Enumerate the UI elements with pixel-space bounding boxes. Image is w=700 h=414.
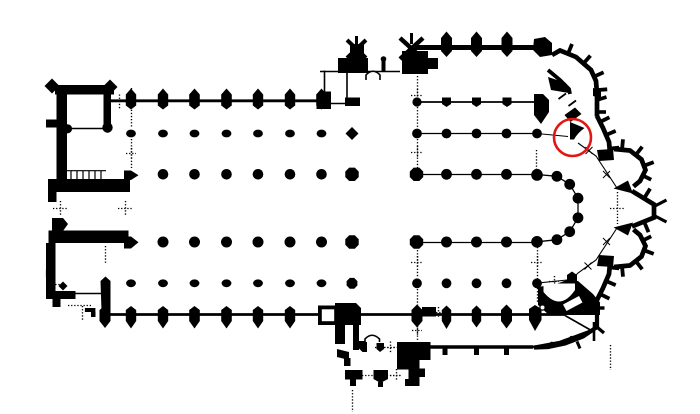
choir NE inner diagonal blob [548, 77, 569, 93]
nave north inner aisle column row2 n5 [253, 130, 263, 138]
southwest tower west stub [46, 270, 54, 278]
south chapel stair newel [540, 305, 545, 310]
choir row4 column 4 [532, 237, 543, 248]
chapel divider mass 4-5 [614, 223, 634, 236]
northwest tower west stub [46, 120, 57, 128]
choir row3 column 3 [501, 169, 512, 180]
choir row5 column 4 [502, 278, 512, 288]
nave south inner aisle column row5 n2 [158, 279, 168, 287]
dotted cross x537 s [531, 262, 543, 264]
south portal trumeau pier [377, 343, 385, 352]
southwest tower east pier [101, 277, 111, 312]
chapel ring junction knob [593, 88, 601, 98]
nave south arcade column row4 n5 [285, 237, 296, 248]
south ambulatory chapel interior [544, 284, 576, 302]
choir south aisle wall pendant pier x476 [472, 306, 481, 328]
southwest tower inner partition wall [73, 293, 104, 295]
nave south arcade column row4 n1 [158, 237, 169, 248]
south portal arch door [365, 335, 380, 342]
choir north wall buttress pier 1 [441, 32, 452, 58]
dotted cross x438 [433, 312, 443, 314]
radiating chapel 2 wall buttresses [600, 117, 609, 122]
choir NE corner pier [533, 37, 552, 57]
nave south wall [109, 313, 565, 316]
northwest tower east wall knob [102, 122, 112, 132]
north transept west wall base pier [345, 98, 360, 107]
choir row5 column 3 [472, 278, 482, 288]
dotted cross south portal [384, 347, 396, 349]
ambulatory middle line north [537, 134, 568, 137]
nave north wall [111, 99, 325, 102]
dotted axis x417 s2 [417, 289, 419, 309]
nave north inner aisle column row2 n4 [222, 130, 232, 138]
dotted axis cross west door south [118, 208, 132, 210]
north portal trumeau pier [382, 61, 386, 72]
choir row4 line [420, 242, 537, 244]
north transept facade west block [338, 58, 368, 73]
transept west aisle pier north diamond [346, 127, 359, 140]
dotted axis x352 bottom [352, 390, 354, 412]
nave south arcade column row4 n4 [253, 237, 264, 248]
choir row2 column 3 [472, 129, 482, 139]
small wall fragment 2 [91, 312, 96, 317]
choir row4 column 1 [441, 237, 452, 248]
choir south aisle wall pendant pier x506 [501, 305, 512, 329]
choir north inner row column 1 [412, 97, 421, 106]
dotted cross x131 [126, 153, 136, 155]
nave north inner aisle column row2 n2 [158, 130, 168, 138]
chapel ring straight wall south [534, 300, 597, 348]
south transept west mass [335, 303, 361, 344]
ambulatory line cross south [549, 281, 559, 283]
south facade centre pendant pier [374, 370, 389, 383]
north transept west chapel room [325, 71, 348, 104]
choir south outer wall stub 3 [504, 349, 509, 356]
nave south wall buttress pier 6 [285, 306, 295, 329]
northwest tower east wall [104, 92, 112, 125]
crossing pier SW [345, 235, 358, 248]
south transept east mass [397, 342, 431, 380]
radiating chapel 1 wall [552, 51, 597, 95]
nave south wall buttress pier 1 [126, 306, 136, 329]
small wall fragment south of SW tower [85, 308, 96, 312]
dotted cross south porch [390, 375, 402, 377]
nave row4 west respond pier [124, 237, 139, 249]
northwest tower NW corner buttress [45, 79, 60, 94]
choir row4 column 2 [471, 237, 482, 248]
radiating chapel 1 wall buttresses [568, 44, 572, 54]
ambulatory middle line south [535, 280, 572, 284]
choir south aisle diagonal [565, 316, 594, 333]
nave south wall buttress pier 3 [189, 306, 200, 329]
northwest tower north wall [55, 85, 114, 95]
nave south inner aisle column row5 n7 [317, 279, 327, 287]
choir north outer wall [414, 45, 546, 50]
nave row3 west respond pier [124, 171, 139, 181]
choir north inner row pier 2 [472, 98, 481, 108]
choir row3 line [420, 174, 537, 176]
radiating chapel 2 wall [597, 116, 610, 153]
south facade west pier pentagon [359, 341, 368, 352]
dotted axis x131 upper [131, 88, 133, 128]
choir row2 column 5 [532, 129, 542, 139]
nave north arcade column row3 n5 [285, 169, 296, 180]
ambulatory line xtick 3 [603, 238, 610, 245]
radiating chapel 3 wall [614, 149, 646, 187]
choir north inner row pier 1 [442, 98, 451, 108]
choir row2 column 2 [442, 129, 452, 139]
choir SE corner vertical [593, 322, 596, 341]
dotted cross x417 mid [411, 152, 423, 154]
nave north wall buttress pier 4 [221, 89, 232, 110]
choir south aisle wall pendant pier x446 [442, 306, 451, 330]
nave north arcade column row3 n1 [158, 169, 169, 180]
choir NE passage dash 2 [569, 101, 577, 107]
southwest tower NW corner pentagon [52, 218, 68, 231]
dotted axis x537 s [537, 247, 539, 279]
nave north wall buttress pier 3 [189, 89, 200, 110]
dotted axis x417 s3 [417, 320, 419, 340]
nave south inner aisle column row5 n6 [285, 279, 295, 287]
dotted south transept axis [375, 347, 400, 349]
chapel divider mass 3-4 [614, 181, 634, 194]
northwest tower partition column [63, 124, 72, 133]
ambulatory middle dotted axial cross [610, 208, 625, 210]
dotted cross x417 s4 [412, 330, 422, 332]
southwest tower south stubs [53, 299, 61, 307]
stair treads [70, 171, 72, 180]
choir NE passage dash 1 [559, 94, 567, 100]
nave south wall buttress pier 4 [221, 306, 232, 329]
southwest tower south wall [49, 291, 76, 299]
choir row3 column 2 [471, 169, 482, 180]
choir south outer wall diagonal [533, 330, 594, 348]
nave north inner aisle column row2 n1 [126, 130, 136, 138]
dotted axis x610 se [610, 345, 612, 370]
nave north wall buttress pier 2 [158, 89, 168, 110]
ambulatory middle line east-north [578, 143, 617, 188]
radiating chapel 5 wall buttresses [643, 236, 651, 240]
dotted axis x131 middle [131, 139, 133, 168]
nave north wall buttress pier 5 [253, 89, 263, 110]
south transept SW bar stub [350, 380, 356, 387]
nave north inner aisle column row2 n7 [317, 130, 327, 138]
northwest tower inner partition wall [67, 128, 104, 130]
south transept west diagonal wall [337, 349, 349, 360]
choir row5 column 1 [412, 278, 422, 288]
dotted axis x417 n3 [417, 139, 419, 169]
nave south wall buttress pier 5 [253, 306, 263, 329]
choir NE inner diagonal wall [548, 70, 570, 94]
dotted bottom-left vertical [82, 306, 84, 320]
choir north inner row pier 3 [503, 98, 512, 108]
north transept facade east structure [402, 51, 428, 74]
crossing pier SE [410, 235, 423, 248]
choir row5 column 2 [442, 278, 452, 288]
nave north wall buttress pier 6 [285, 89, 295, 110]
south transept SW bar [345, 370, 363, 380]
choir row3 terminal column [531, 169, 543, 181]
choir south outer wall diagonal tick 2 [571, 336, 573, 342]
dotted axis x417 s1 [417, 247, 419, 278]
south transept east mass stub right [420, 369, 426, 378]
nave south inner aisle column row5 n5 [253, 279, 263, 287]
southwest tower inner diamond pier [59, 282, 68, 291]
radiating chapel 3 wall buttresses [622, 139, 623, 150]
choir south aisle wall pendant pier x417 [412, 305, 423, 328]
choir south outer wall stub 1 [443, 349, 448, 356]
choir row2 column 1 [412, 129, 422, 139]
south transept facade west pentagon [345, 303, 356, 319]
south ambulatory chapel mass [538, 280, 600, 315]
southwest tower west wall [46, 243, 56, 299]
hemicycle column 2 [564, 179, 575, 190]
chapel ring straight wall north buttress [597, 97, 607, 100]
chapel ring south buttress [597, 306, 605, 309]
north transept west chapel SW pier [320, 92, 332, 108]
dotted south porch line [362, 375, 400, 377]
choir north inner row east pier blob [534, 94, 549, 124]
west facade north bar with stair [48, 179, 130, 192]
chapel divider mass 2-3 [597, 149, 614, 161]
northwest tower NE corner buttress [103, 80, 118, 95]
north transept facade wall west segment [320, 71, 340, 73]
dotted axis x417 n2 [417, 107, 419, 129]
choir north wall buttress pier 2 [471, 32, 482, 58]
transept west aisle pier south [347, 278, 358, 289]
ambulatory line xtick 1 [586, 147, 593, 154]
axial chapel east buttress upper [654, 200, 667, 207]
nave south wall buttress pier 2 [158, 306, 168, 329]
hemicycle column 5 [564, 226, 575, 237]
south transept west chapel room [318, 306, 338, 326]
crossing pier NE [410, 168, 423, 181]
nave south wall west pier [100, 306, 111, 329]
axial chapel wall buttresses [644, 189, 650, 199]
nave south arcade column row4 n3 [221, 237, 232, 248]
nave north arcade column row3 n6 [316, 169, 327, 180]
choir north inner wall line [417, 101, 534, 103]
nave north inner aisle column row2 n3 [190, 130, 200, 138]
south transept west stub [344, 358, 351, 366]
choir row5 column 5 [532, 278, 542, 288]
dotted cross x417 north [411, 95, 423, 97]
dotted tower bits [49, 284, 60, 286]
choir south outer wall stub 2 [474, 349, 479, 356]
north portal arch door [366, 71, 380, 80]
choir north wall buttress pier 3 [502, 32, 513, 58]
radiating chapel 5 wall [614, 230, 646, 268]
axial chapel east buttress lower [654, 216, 667, 223]
choir row2 column 4 [502, 129, 512, 139]
hemicycle arcade line [537, 175, 578, 242]
south chapel doorway slit [563, 296, 583, 311]
choir south outer wall [430, 345, 533, 349]
nave south inner aisle column row5 n3 [190, 279, 200, 287]
choir south aisle wall pendant pier x535 [529, 305, 542, 331]
nave north arcade column row3 n4 [253, 169, 264, 180]
axial chapel wall [632, 191, 654, 227]
radiating chapel 6 wall buttresses [610, 265, 620, 270]
dotted axis cross west door north [53, 208, 67, 210]
chapel ring straight wall north [595, 92, 600, 117]
nave north arcade column row3 n3 [221, 169, 232, 180]
dotted axis x105 [105, 246, 107, 264]
dotted cross x417 s [411, 262, 423, 264]
dotted axis x537 s2 [537, 288, 539, 302]
nave north inner aisle column row2 n6 [285, 130, 295, 138]
north transept facade west pier with pinnacles [350, 44, 364, 58]
nave south inner aisle column row5 n4 [222, 279, 232, 287]
choir row3 column 1 [441, 169, 452, 180]
hemicycle column 3 [573, 193, 584, 204]
northwest tower west wall [57, 85, 68, 181]
ambulatory middle dotted axial mouth [617, 192, 619, 224]
dotted cross nave west bay [112, 101, 126, 103]
nave south inner aisle column row5 n1 [126, 279, 136, 287]
crossing pier NW [345, 168, 358, 181]
ambulatory pier SSE pentagon [567, 272, 577, 286]
ambulatory line xtick 2 [603, 171, 610, 178]
choir row2 line [417, 133, 537, 135]
red highlight circle [554, 119, 591, 156]
hemicycle column 1 [552, 171, 563, 182]
nave north wall buttress pier 1 [126, 89, 136, 110]
nave north wall buttress pier 7 [316, 89, 327, 110]
chapel divider mass 5-6 [597, 255, 614, 267]
north transept portal wall [340, 71, 400, 73]
choir row4 column 3 [501, 237, 512, 248]
southwest tower north bar [49, 231, 129, 244]
nave south arcade column row4 n6 [316, 237, 327, 248]
hemicycle column 6 [552, 234, 563, 245]
ambulatory middle line east-south [572, 228, 617, 280]
nave south arcade column row4 n2 [189, 237, 200, 248]
ambulatory NNE wedge pier (highlighted) [570, 122, 585, 140]
nave north arcade column row3 n2 [189, 169, 200, 180]
radiating chapel 6 wall [597, 263, 610, 300]
dotted axis x537 mid [536, 150, 538, 172]
choir row3 column 4 [532, 169, 543, 180]
dotted cross se chapel [579, 307, 591, 309]
ambulatory line xtick 4 [585, 263, 592, 270]
south transept west wall lower [353, 320, 359, 350]
nave north wall east corner block [317, 95, 332, 110]
west facade north bar left stub [48, 191, 57, 202]
south transept east mass foot [405, 379, 420, 386]
choir south outer wall diagonal tick 1 [551, 342, 553, 348]
hemicycle column 4 [573, 212, 584, 223]
dotted axis x417 n1 [417, 76, 419, 97]
chapel divider mass 1-2 [565, 108, 582, 123]
choir row4 terminal column [531, 236, 543, 248]
stair landing line [67, 170, 106, 172]
dotted bottom-left horizontal [68, 305, 92, 307]
